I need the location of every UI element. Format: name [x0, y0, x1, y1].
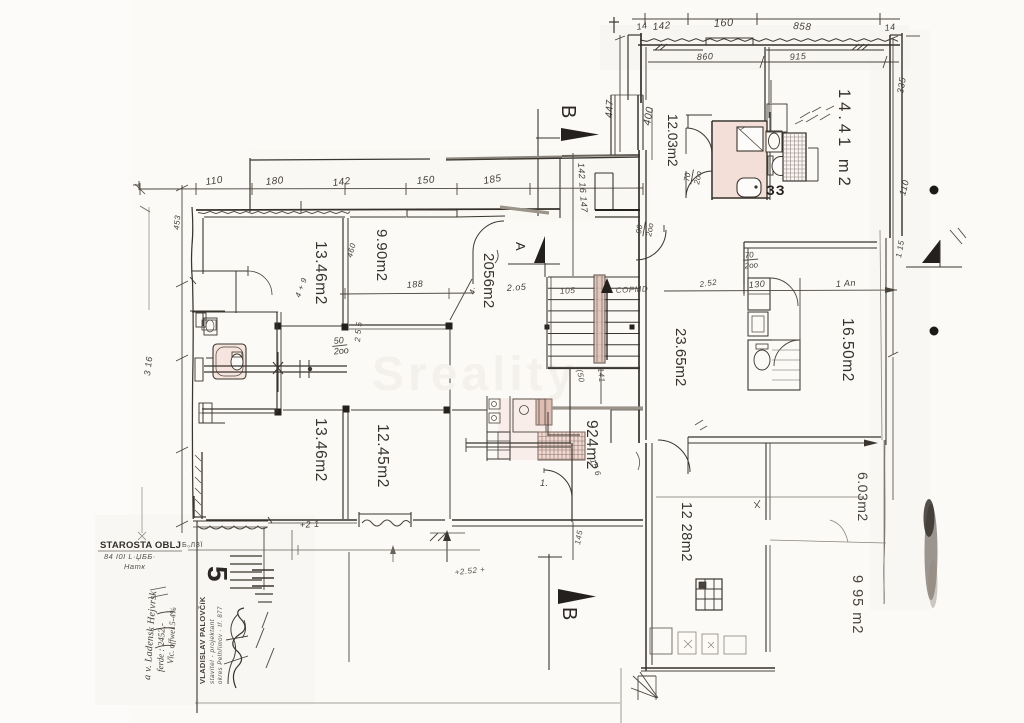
main top wall left apartment	[196, 158, 560, 218]
fraction 70/200 right	[742, 250, 759, 271]
wall below kitchen y445	[466, 438, 571, 452]
svg-text:13.46m2: 13.46m2	[312, 241, 329, 305]
dimension line y188	[135, 173, 643, 195]
svg-text:447: 447	[604, 99, 616, 118]
room label 16.50m2	[839, 318, 856, 382]
room label 9.24m2	[583, 420, 600, 470]
left bathroom partitions	[192, 266, 278, 313]
door 9.90 to 20.56	[450, 221, 504, 320]
room label 13.46m2 lower	[312, 418, 329, 482]
svg-text:2oo: 2oo	[332, 345, 349, 357]
fraction 50/200	[331, 335, 349, 357]
room label 23.65m2	[672, 328, 689, 386]
right outer wall (right apartment)	[884, 33, 902, 604]
room label 12.28m2	[678, 502, 694, 562]
svg-text:A: A	[513, 242, 528, 251]
svg-text:12.45m2: 12.45m2	[374, 424, 391, 488]
room label 13.46m2 upper	[312, 241, 329, 305]
door arc 20.56 top wall	[495, 250, 498, 263]
left outer wall (right apartment)	[628, 33, 646, 103]
bottom wall bottom-right apt	[641, 668, 775, 671]
stair stringer	[594, 275, 605, 363]
stamp STAROSTA	[98, 540, 203, 571]
dim line y293 (9.90 room)	[340, 288, 474, 299]
wall x345 lower (between 13.46 / 12.45)	[343, 412, 348, 519]
fraction 90/200	[634, 220, 656, 238]
door arc 9.24	[540, 468, 572, 497]
bathtub left bath	[213, 344, 246, 379]
svg-text:16.50m2: 16.50m2	[839, 318, 856, 382]
bathroom walls	[712, 112, 770, 200]
svg-text:160: 160	[713, 17, 734, 30]
svg-text:VLADISLAV PALOVČíK: VLADISLAV PALOVČíK	[198, 596, 207, 684]
corridor wall y326 row	[281, 325, 446, 329]
left vertical dim 447	[604, 35, 625, 152]
top dimension line (right apartment)	[609, 13, 900, 33]
section marker B (top)	[536, 105, 599, 216]
svg-text:COPMD: COPMD	[616, 284, 649, 295]
room label 14.41 m2	[835, 89, 853, 190]
left wall bottom-right apt	[646, 443, 652, 671]
svg-text:180: 180	[265, 175, 284, 188]
corridor wall left of bathroom	[686, 47, 769, 128]
svg-text:5: 5	[202, 566, 233, 582]
corridor wall y410	[202, 409, 487, 413]
svg-text:ЗЗ: ЗЗ	[766, 182, 786, 198]
svg-text:13.46m2: 13.46m2	[312, 418, 329, 482]
right apartment bath module	[748, 278, 800, 390]
hw 156 diagonal	[572, 153, 574, 276]
wall 16.50 top y245	[744, 242, 877, 294]
room label 12.45m2	[374, 424, 391, 488]
svg-text:2oo: 2oo	[743, 260, 759, 270]
svg-text:142: 142	[652, 20, 671, 33]
shower cabin	[737, 127, 763, 151]
svg-text:188: 188	[406, 279, 423, 290]
vertical dim 400	[641, 106, 656, 160]
svg-text:okres Pelhřimov · tř. 877: okres Pelhřimov · tř. 877	[218, 606, 224, 684]
pencil scribbles above bathroom	[795, 106, 834, 124]
svg-text:+2 1: +2 1	[299, 519, 319, 530]
signature flourish	[224, 608, 248, 688]
svg-text:915: 915	[789, 51, 807, 62]
section marker A (stairs)	[467, 236, 560, 296]
svg-text:150: 150	[416, 174, 435, 187]
washbasin left bath	[204, 318, 217, 335]
svg-text:23.65m2: 23.65m2	[672, 328, 689, 386]
wall x345 upper (between 13.46 / 9.90)	[343, 218, 348, 324]
section marker A (right)	[906, 228, 966, 267]
corner cross hatch marks	[631, 672, 658, 700]
window hatched box	[696, 579, 722, 610]
wall x278 vertical	[277, 312, 281, 412]
door arc 12.28	[658, 437, 690, 474]
small wall x611	[611, 407, 643, 443]
plumbing wall y366-372	[204, 352, 347, 392]
section marker B (bottom)	[538, 554, 596, 670]
room label 20.56m2	[480, 253, 497, 308]
signature scribbles left column	[142, 587, 178, 680]
svg-text:STAROSTA OBLJ: STAROSTA OBLJ	[100, 540, 181, 551]
stairwell upper walls	[611, 95, 643, 155]
svg-text:1.: 1.	[540, 478, 549, 488]
stairwell right wall	[639, 150, 646, 443]
svg-text:stavitel - projektant: stavitel - projektant	[209, 618, 216, 684]
svg-text:453: 453	[172, 215, 182, 231]
svg-text:Б₀ЛЗЇ: Б₀ЛЗЇ	[182, 541, 203, 549]
bottom wall left apartment	[194, 496, 643, 530]
small pencil marks near doors	[636, 420, 760, 508]
diagonal slashes	[256, 612, 274, 668]
fraction 70/200 bathroom door	[682, 168, 704, 186]
room label 6.03m2	[855, 472, 871, 522]
bottom fixtures faint	[650, 628, 746, 654]
svg-text:Hаmк: Hаmк	[124, 562, 145, 571]
svg-text:12.03m2: 12.03m2	[665, 114, 680, 167]
wall y440 right	[688, 437, 881, 447]
svg-text:70: 70	[744, 250, 754, 260]
svg-text:9.90m2: 9.90m2	[373, 229, 390, 281]
boiler mark 35	[766, 182, 786, 198]
rotated official stamp text	[198, 596, 207, 684]
dim arrows under bottom wall	[430, 522, 585, 577]
stair up arrow	[601, 278, 613, 360]
kitchen hatched counter	[538, 432, 585, 460]
upper duct above bathroom	[765, 80, 787, 132]
svg-text:141: 141	[596, 367, 607, 383]
door arcs into bathroom	[686, 128, 712, 198]
scan haze patches	[250, 150, 650, 220]
top outer wall (right apartment)	[638, 38, 900, 50]
svg-text:B: B	[557, 105, 579, 118]
hatched duct block	[783, 133, 818, 181]
WC	[768, 156, 790, 176]
room label 9.90m2	[373, 229, 390, 281]
svg-text:1 An: 1 An	[835, 278, 856, 289]
faint bottom lines	[188, 530, 621, 723]
left outer wall with windows	[190, 207, 225, 519]
svg-text:2.o5: 2.o5	[505, 282, 527, 293]
svg-text:9 95 m2: 9 95 m2	[849, 575, 865, 634]
corridor small walls below stairs	[548, 367, 643, 443]
svg-text:14: 14	[636, 20, 649, 32]
svg-text:105: 105	[559, 285, 575, 296]
WC left bath	[231, 352, 243, 370]
svg-text:142: 142	[332, 176, 351, 189]
room label 12.03m2	[665, 114, 680, 167]
node squares	[275, 323, 635, 416]
dim line y290	[664, 278, 897, 296]
svg-text:14.41 m2: 14.41 m2	[835, 89, 853, 190]
svg-text:50: 50	[333, 335, 344, 346]
svg-text:860: 860	[697, 51, 714, 62]
washbasin	[766, 131, 782, 152]
svg-text:2056m2: 2056m2	[480, 253, 497, 308]
svg-text:12 28m2: 12 28m2	[678, 502, 694, 562]
landing door upper	[595, 173, 640, 217]
stair treads	[547, 277, 640, 369]
svg-text:84 I0I L·ЏББ·: 84 I0I L·ЏББ·	[104, 552, 156, 561]
svg-text:858: 858	[793, 21, 812, 33]
right wall x768	[766, 443, 770, 652]
svg-text:B: B	[558, 607, 580, 620]
long vertical line x349	[348, 552, 350, 662]
kitchen fixtures	[487, 396, 552, 461]
bathtub	[737, 178, 761, 197]
svg-text:2 5 5: 2 5 5	[353, 321, 364, 343]
right vertical dimension chain	[888, 36, 920, 500]
upper outline y158	[250, 155, 640, 213]
punch hole dots right	[930, 186, 939, 195]
wavy underlines in title block	[362, 520, 446, 541]
inner dimension (860 / 915)	[648, 51, 899, 68]
left vertical dimension	[133, 181, 188, 540]
corridor door arc (stairwell)	[636, 225, 666, 260]
title block box	[193, 521, 274, 713]
room label 9.95m2	[849, 575, 865, 634]
scanner shadow blob right	[924, 499, 938, 608]
wall x571	[571, 443, 573, 522]
wall x449 lower	[449, 329, 451, 519]
bathroom floor (pink)	[713, 122, 767, 199]
svg-text:130: 130	[748, 279, 765, 290]
kitchen floor tint	[498, 398, 552, 460]
svg-text:14: 14	[884, 22, 896, 33]
faint interior lines bottom right	[656, 230, 886, 600]
